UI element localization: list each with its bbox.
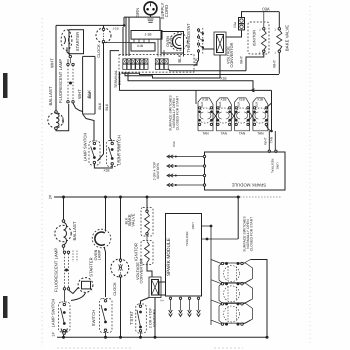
wire riser	[123, 17, 125, 25]
svg-text:BLK: BLK	[218, 102, 222, 108]
wire ballast to lamp	[56, 104, 69, 131]
wire board right out A	[169, 64, 197, 66]
connector X1B	[131, 43, 155, 51]
oven light DS1 loop	[161, 32, 184, 54]
wire switch link	[94, 164, 112, 168]
svg-text:BALLAST: BALLAST	[48, 86, 53, 105]
svg-text:X1B: X1B	[220, 77, 227, 81]
wire left rail	[55, 25, 57, 110]
wire line rail down	[210, 226, 212, 325]
starter S1 top	[61, 30, 72, 51]
wire switch to bus Y	[61, 329, 64, 338]
svg-text:P#: P#	[160, 299, 164, 303]
starter S2 bottom	[78, 278, 93, 293]
svg-text:SPARK MODULE: SPARK MODULE	[232, 183, 267, 188]
lamp switch SW1 top	[89, 141, 100, 165]
svg-text:CLOSED FOR START: CLOSED FOR START	[250, 217, 254, 251]
wire converter to connector	[226, 30, 242, 37]
wire drop lamp switch	[83, 114, 94, 141]
svg-text:THERMOSTAT: THERMOSTAT	[186, 23, 191, 53]
wire tstat down	[140, 332, 142, 337]
svg-text:TAN: TAN	[239, 131, 246, 135]
svg-text:BALLAST: BALLAST	[72, 221, 77, 240]
svg-text:WHT: WHT	[61, 116, 65, 123]
svg-text:03A: 03A	[172, 141, 176, 147]
fluorescent lamp FL1 tube	[67, 66, 69, 101]
wire converter down	[154, 298, 156, 338]
svg-text:STARTER: STARTER	[89, 257, 94, 276]
switch terminals row 4	[221, 323, 223, 325]
spark module SM2 bottom	[166, 214, 202, 297]
svg-text:BLK: BLK	[177, 54, 182, 62]
svg-text:X1B: X1B	[257, 98, 263, 102]
svg-text:CONVERTOR: CONVERTOR	[230, 42, 234, 67]
wire clock to connector	[104, 41, 132, 43]
svg-text:WHT: WHT	[264, 137, 268, 145]
svg-text:CORD: CORD	[164, 5, 169, 18]
svg-text:NEUTRAL: NEUTRAL	[271, 159, 275, 174]
svg-text:CLOCK: CLOCK	[97, 44, 101, 58]
wire thermostat to converter	[203, 48, 214, 50]
svg-text:FLUORESCENT LAMP: FLUORESCENT LAMP	[58, 59, 63, 103]
svg-text:LAMP SWITCH: LAMP SWITCH	[83, 133, 88, 162]
svg-text:X1B: X1B	[202, 98, 208, 102]
ballast B1 top terminal	[55, 111, 58, 114]
node bottom clock	[119, 336, 122, 339]
bake valve L1 top	[278, 28, 280, 30]
wire switch4 to junction	[266, 126, 271, 131]
wire board hook to light switch	[110, 51, 119, 142]
svg-text:LINE: LINE	[191, 222, 195, 229]
node bottom ballast	[62, 336, 65, 339]
ignitor R2 bottom	[141, 241, 153, 265]
fold line left	[41, 18, 43, 346]
svg-text:03a: 03a	[233, 22, 237, 28]
wire channel box bottom	[83, 113, 95, 115]
svg-text:SPARK MODULE: SPARK MODULE	[166, 238, 171, 276]
fold line right	[309, 6, 311, 346]
wire top bus upper	[124, 16, 160, 18]
spark module bottom leads	[169, 297, 171, 299]
supply cord plug	[144, 2, 157, 15]
wire switch1 feed	[195, 90, 197, 104]
svg-text:LIGHT SWITCH: LIGHT SWITCH	[117, 135, 122, 165]
svg-text:TAN: TAN	[270, 136, 274, 143]
wire board right out B	[168, 69, 246, 71]
svg-text:BLK: BLK	[200, 102, 204, 108]
node bus right	[237, 196, 240, 199]
surface switch SS2 top	[216, 98, 231, 131]
fluorescent lamp FL2	[64, 254, 66, 288]
node bottom converter	[154, 336, 157, 339]
wire starter to lamp	[67, 47, 70, 55]
spark module HV connector	[159, 282, 166, 295]
wire lamp bottom to box	[73, 103, 83, 112]
wire switch link 1	[213, 112, 219, 120]
wire bottom bus	[57, 336, 267, 338]
svg-text:STARTER: STARTER	[75, 32, 80, 51]
terminal board contacts A	[123, 59, 127, 64]
wire bottom diagram top bus	[54, 196, 240, 198]
voltage converter VC2	[149, 277, 161, 298]
wire bake to ignitor	[146, 235, 148, 241]
svg-text:1#: 1#	[52, 332, 56, 337]
wire switch link 2	[231, 112, 237, 120]
wire feed corner arrow	[252, 89, 255, 92]
page edge mark upper	[3, 73, 8, 98]
wire stubs to board	[133, 39, 135, 43]
bake valve L2	[141, 208, 153, 237]
node bus ballast	[62, 196, 65, 199]
scan noise bottom left	[57, 347, 133, 349]
spark module SM1 top	[205, 152, 286, 190]
surface switch SS4 top	[253, 98, 268, 131]
ballast B2 top terminal	[62, 220, 65, 223]
wire plug lead	[150, 15, 152, 17]
svg-text:LIGHT: LIGHT	[170, 35, 174, 47]
wire neutral riser	[237, 197, 239, 239]
wire top bus	[56, 24, 124, 26]
svg-text:TAN: TAN	[221, 131, 228, 135]
thermostat TS2 bottom	[136, 304, 147, 333]
clock CL1 top	[96, 28, 111, 43]
svg-text:WHT: WHT	[240, 56, 244, 64]
svg-text:BLK: BLK	[98, 102, 102, 109]
wire converter to tstat	[141, 298, 150, 305]
oven light DS1 lamp	[170, 33, 188, 51]
terminal board TB1	[119, 55, 194, 73]
switch terminals row 1	[221, 262, 223, 264]
node bus bake	[146, 196, 149, 199]
wire NEUTRAL	[202, 238, 239, 240]
spark module top leads	[203, 155, 205, 157]
svg-text:J-1B: J-1B	[112, 27, 118, 31]
svg-text:WHT: WHT	[77, 89, 82, 99]
svg-text:T'STAT: T'STAT	[129, 311, 134, 325]
svg-text:IGNITORS: IGNITORS	[152, 309, 156, 327]
light switch SW2 top	[107, 141, 119, 167]
svg-text:CLOSED FOR START: CLOSED FOR START	[176, 96, 180, 130]
ballast B1 bottom terminal	[55, 127, 58, 130]
svg-text:2#: 2#	[49, 194, 53, 199]
svg-text:GRN: GRN	[135, 8, 140, 18]
wire clock rail	[120, 197, 122, 259]
page edge mark lower	[3, 296, 8, 318]
svg-text:LAMP SWITCH: LAMP SWITCH	[51, 299, 56, 328]
svg-text:NEUTRAL: NEUTRAL	[185, 232, 189, 247]
switch terminals row 2	[221, 283, 223, 285]
wire ignitor bottom	[246, 52, 264, 70]
svg-text:SWITCH: SWITCH	[91, 310, 96, 326]
surface switch SS1 top	[198, 98, 213, 131]
node top bus corner	[123, 24, 126, 27]
wire channel box	[82, 56, 84, 114]
svg-text:X1B: X1B	[220, 98, 226, 102]
wire board out 4	[120, 72, 272, 90]
wire lamp to starter	[69, 288, 79, 294]
node bottom tstat	[139, 336, 142, 339]
wire pair to spark module	[268, 131, 270, 151]
ballast B2	[55, 225, 71, 241]
oven lamp DS2	[92, 229, 111, 248]
wire bake valve rail	[278, 12, 280, 28]
wire right rail top	[251, 260, 268, 338]
svg-text:WHT: WHT	[50, 58, 55, 68]
surface switch SS7 bottom	[219, 303, 253, 323]
svg-text:LINE: LINE	[276, 162, 280, 169]
svg-text:BLK: BLK	[236, 102, 240, 108]
wire thermostat down	[197, 52, 199, 65]
wire ballast rail bottom	[63, 197, 65, 220]
wire ignitor to converter	[147, 263, 152, 278]
svg-text:TAN: TAN	[257, 131, 264, 135]
connector J-1B	[131, 31, 162, 40]
svg-text:FLUORESCENT LAMP: FLUORESCENT LAMP	[54, 248, 59, 292]
ballast B1	[48, 113, 63, 128]
svg-text:X1B: X1B	[103, 169, 109, 173]
surface switch SS6 bottom	[219, 283, 253, 303]
wire oven lamp down	[104, 247, 105, 297]
wire board out 1	[122, 72, 279, 74]
svg-text:X1B: X1B	[137, 44, 144, 48]
svg-text:CONVERTOR: CONVERTOR	[140, 258, 144, 283]
svg-text:LAMP: LAMP	[97, 249, 101, 260]
svg-text:X1B: X1B	[239, 98, 245, 102]
terminal board contacts B	[155, 59, 159, 64]
svg-text:03A: 03A	[262, 7, 270, 12]
node bottom right rail	[266, 336, 269, 339]
wire harness bundle	[122, 27, 124, 56]
wire connector to top rail	[242, 12, 280, 18]
svg-text:J-1B: J-1B	[145, 33, 153, 37]
node bus clock	[119, 196, 122, 199]
fluorescent filament dashes	[72, 251, 74, 263]
wire feed D drop	[271, 90, 273, 131]
node bus oven lamp	[104, 196, 107, 199]
svg-text:BLK: BLK	[88, 91, 92, 98]
svg-text:BAKE VALVE: BAKE VALVE	[285, 25, 290, 51]
svg-text:IGNITOR: IGNITOR	[133, 243, 138, 261]
surface switch SS3 top	[235, 98, 250, 131]
surface switch SS5 bottom	[219, 263, 253, 283]
wire board out 3	[128, 72, 253, 92]
lamp switch SW3 bottom	[64, 290, 66, 302]
svg-text:CLOCK: CLOCK	[113, 282, 117, 296]
wire right drop to connector	[159, 17, 161, 30]
scan noise bottom right	[214, 347, 243, 349]
svg-text:WHT: WHT	[273, 60, 277, 68]
ignitor R1 top	[248, 22, 269, 54]
voltage converter VC1 top	[214, 32, 226, 55]
svg-text:BLK: BLK	[105, 103, 109, 110]
svg-text:VALVE: VALVE	[130, 213, 135, 226]
wire oven lamp rail	[105, 197, 107, 232]
connector O3A	[239, 18, 245, 24]
wire bake rail bottom	[146, 197, 148, 210]
wire board out 2	[125, 55, 220, 78]
svg-text:IGNITOR: IGNITOR	[253, 30, 257, 47]
wire oven light bottom	[183, 53, 185, 57]
wire switch down	[105, 332, 107, 338]
svg-text:TAN: TAN	[202, 131, 209, 135]
node bottom switch	[104, 336, 107, 339]
svg-text:IGNITORS: IGNITORS	[156, 163, 160, 179]
clock CL2	[111, 259, 129, 277]
switch terminals row 3	[221, 303, 223, 305]
ballast B2 bottom terminal	[62, 245, 65, 248]
wire clock down	[120, 277, 122, 337]
wire LINE	[202, 225, 212, 227]
wire starter down	[71, 293, 86, 301]
switch SW4 bottom	[100, 299, 113, 333]
wire clock drop	[98, 43, 104, 161]
svg-text:BLK: BLK	[255, 102, 259, 108]
wire switch link 3	[249, 112, 255, 120]
wire converter bottom	[219, 55, 221, 78]
